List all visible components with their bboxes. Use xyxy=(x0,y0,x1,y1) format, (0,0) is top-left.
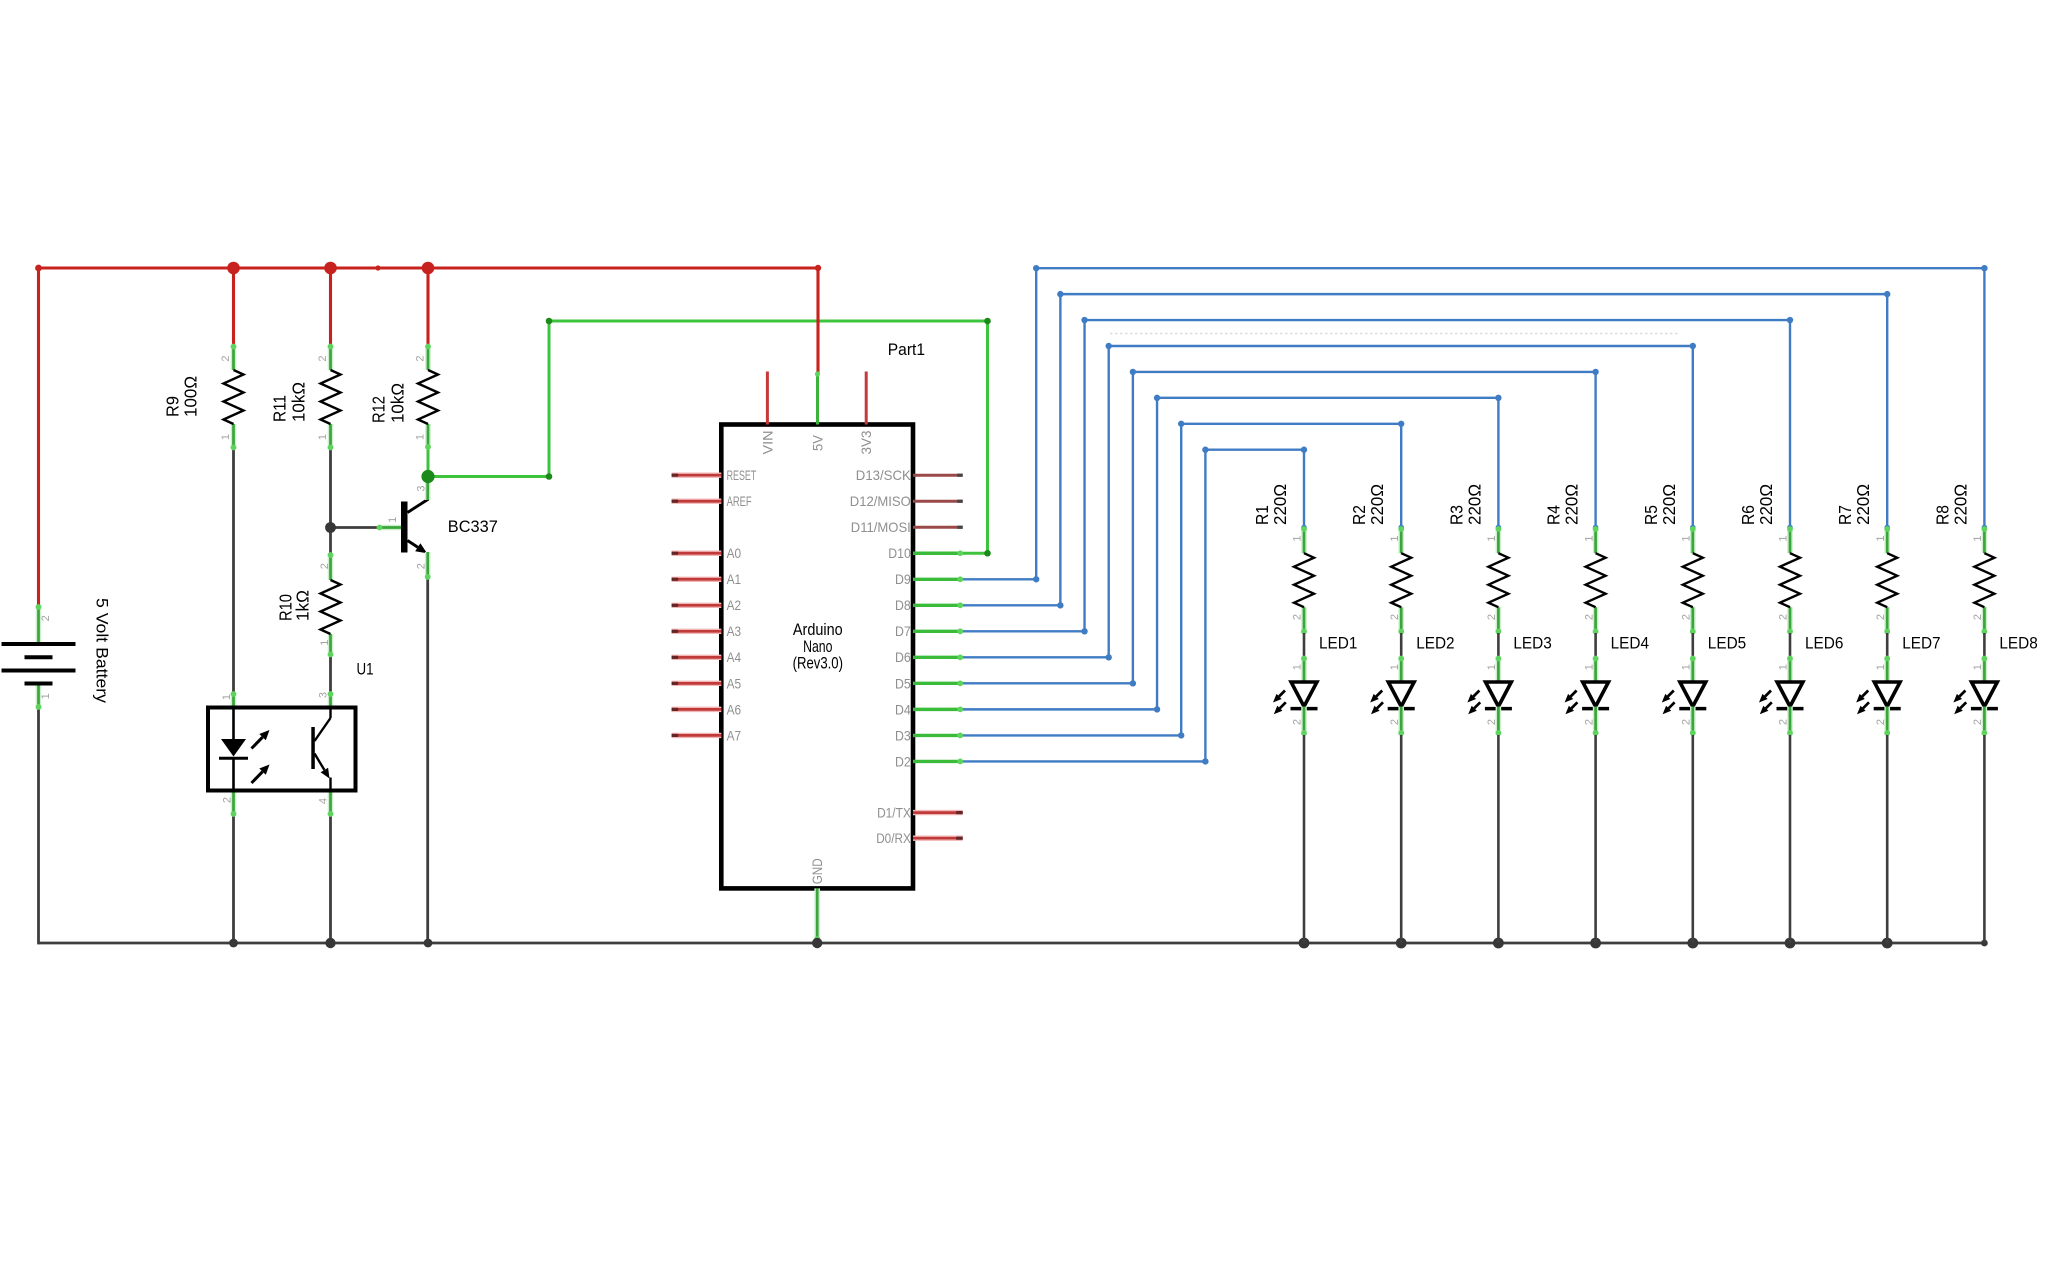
wire opto pin2 to GND bus xyxy=(232,816,235,944)
LED LED4 xyxy=(1565,634,1649,736)
svg-text:D1/TX: D1/TX xyxy=(877,805,911,821)
svg-text:220Ω: 220Ω xyxy=(1562,484,1582,525)
junction GND LED2 column xyxy=(1396,938,1407,949)
wire R9 to opto pin1 xyxy=(232,449,235,693)
svg-text:2: 2 xyxy=(1486,614,1498,620)
svg-text:1: 1 xyxy=(415,434,427,440)
svg-text:1: 1 xyxy=(1875,535,1887,541)
svg-text:1: 1 xyxy=(1292,664,1304,670)
wire LED6 to GND bus xyxy=(1789,735,1792,943)
wire R8 to LED8 xyxy=(1983,633,1986,658)
svg-text:Arduino: Arduino xyxy=(793,621,843,639)
LED LED2 xyxy=(1370,634,1454,736)
svg-text:D13/SCK: D13/SCK xyxy=(856,467,912,483)
junction GND LED5 column xyxy=(1687,938,1698,949)
wire rail to R12 xyxy=(426,268,429,345)
junction GND LED7 column xyxy=(1882,938,1893,949)
junction GND LED4 column xyxy=(1590,938,1601,949)
wire rail to R11 xyxy=(329,268,332,345)
svg-text:2: 2 xyxy=(1389,614,1401,620)
svg-text:1: 1 xyxy=(1778,535,1790,541)
svg-text:2: 2 xyxy=(319,563,331,569)
svg-text:R8: R8 xyxy=(1932,505,1952,525)
svg-text:1: 1 xyxy=(1486,664,1498,670)
wire D4 to R3 xyxy=(962,395,1502,713)
svg-text:D5: D5 xyxy=(895,675,911,691)
svg-text:R5: R5 xyxy=(1641,505,1661,525)
svg-text:R7: R7 xyxy=(1835,505,1855,525)
junction rail R9 xyxy=(227,262,240,275)
svg-text:D0/RX: D0/RX xyxy=(876,830,911,846)
wire battery negative to GND bus xyxy=(37,710,40,945)
wire base junction to BC337 base xyxy=(331,526,379,529)
wire R2 to LED2 xyxy=(1400,633,1403,658)
svg-text:2: 2 xyxy=(40,615,52,621)
LED LED5 xyxy=(1662,634,1746,736)
wire rail to Arduino 5V pin xyxy=(816,268,819,374)
svg-text:1: 1 xyxy=(220,434,232,440)
wire LED1 to GND bus xyxy=(1303,735,1306,943)
svg-text:LED3: LED3 xyxy=(1513,634,1551,653)
wire LED4 to GND bus xyxy=(1594,735,1597,943)
svg-text:D4: D4 xyxy=(895,701,911,717)
svg-text:1: 1 xyxy=(1875,664,1887,670)
svg-text:AREF: AREF xyxy=(727,493,752,509)
svg-text:2: 2 xyxy=(1292,614,1304,620)
svg-text:10kΩ: 10kΩ xyxy=(388,383,408,423)
svg-text:(Rev3.0): (Rev3.0) xyxy=(793,654,843,672)
svg-text:D7: D7 xyxy=(895,623,911,639)
wire R6 to LED6 xyxy=(1789,633,1792,658)
svg-text:2: 2 xyxy=(317,355,329,361)
wire R5 to LED5 xyxy=(1692,633,1695,658)
svg-text:100Ω: 100Ω xyxy=(181,376,201,417)
svg-text:2: 2 xyxy=(1583,614,1595,620)
wire LED5 to GND bus xyxy=(1692,735,1695,943)
svg-text:220Ω: 220Ω xyxy=(1756,484,1776,525)
svg-text:1: 1 xyxy=(1486,535,1498,541)
svg-text:3: 3 xyxy=(318,692,330,698)
wire opto pin4 to GND bus xyxy=(329,816,332,944)
junction rail R11 xyxy=(324,262,337,275)
svg-text:A7: A7 xyxy=(727,727,742,743)
wire D3 to R2 xyxy=(962,421,1404,739)
wire D8 to R7 xyxy=(962,291,1890,609)
svg-text:U1: U1 xyxy=(357,660,374,679)
svg-text:LED2: LED2 xyxy=(1416,634,1454,653)
svg-text:LED8: LED8 xyxy=(1999,634,2037,653)
svg-text:2: 2 xyxy=(1875,719,1887,725)
wire R11 to base junction xyxy=(329,449,332,528)
wire LED3 to GND bus xyxy=(1497,735,1500,943)
svg-text:1: 1 xyxy=(1681,535,1693,541)
svg-text:2: 2 xyxy=(1875,614,1887,620)
svg-text:RESET: RESET xyxy=(727,467,757,483)
wire LED2 to GND bus xyxy=(1400,735,1403,943)
svg-text:A6: A6 xyxy=(727,701,742,717)
junction GND R11 column xyxy=(325,938,335,948)
wire D9 to R8 xyxy=(962,265,1988,582)
svg-text:1: 1 xyxy=(40,693,52,699)
svg-text:1: 1 xyxy=(317,434,329,440)
svg-text:D9: D9 xyxy=(895,571,911,587)
svg-text:1: 1 xyxy=(1583,664,1595,670)
svg-text:A2: A2 xyxy=(727,597,742,613)
svg-text:1: 1 xyxy=(1972,535,1984,541)
resistor R8 220Ω xyxy=(1932,484,1994,634)
LED LED1 xyxy=(1273,634,1357,736)
svg-text:D12/MISO: D12/MISO xyxy=(850,493,911,509)
wire D6 to R5 xyxy=(962,343,1696,661)
resistor R4 220Ω xyxy=(1544,484,1606,634)
wire GND bus xyxy=(39,942,1985,945)
svg-text:LED4: LED4 xyxy=(1611,634,1649,653)
svg-text:R12: R12 xyxy=(368,396,388,423)
resistor R11 10kΩ xyxy=(270,344,341,451)
svg-text:3V3: 3V3 xyxy=(858,430,874,454)
svg-text:1: 1 xyxy=(1292,535,1304,541)
svg-text:10kΩ: 10kΩ xyxy=(289,382,309,422)
svg-text:A1: A1 xyxy=(727,571,742,587)
svg-text:1: 1 xyxy=(221,694,233,700)
svg-text:D10: D10 xyxy=(888,545,911,561)
junction base node xyxy=(325,522,336,533)
wire LED8 to GND bus xyxy=(1983,735,1986,943)
junction GND LED8 column xyxy=(1981,940,1988,947)
junction collector node xyxy=(421,470,434,483)
resistor R2 220Ω xyxy=(1349,484,1411,634)
svg-text:1: 1 xyxy=(1389,535,1401,541)
svg-text:2: 2 xyxy=(220,355,232,361)
svg-text:5 Volt Battery: 5 Volt Battery xyxy=(93,598,112,704)
wire D7 to R6 xyxy=(962,317,1793,635)
svg-text:R1: R1 xyxy=(1252,505,1272,525)
wire rail to R9 xyxy=(232,268,235,345)
svg-text:2: 2 xyxy=(1778,719,1790,725)
wire +5V rail xyxy=(35,265,821,272)
svg-text:220Ω: 220Ω xyxy=(1659,484,1679,525)
resistor R9 100Ω xyxy=(163,344,244,451)
resistor R7 220Ω xyxy=(1835,484,1897,634)
svg-text:R2: R2 xyxy=(1349,505,1369,525)
svg-text:2: 2 xyxy=(1681,719,1693,725)
svg-text:2: 2 xyxy=(1292,719,1304,725)
svg-text:A3: A3 xyxy=(727,623,742,639)
svg-text:Nano: Nano xyxy=(803,638,832,656)
transistor Q1 BC337 xyxy=(377,477,498,580)
svg-text:R4: R4 xyxy=(1544,505,1564,525)
svg-text:BC337: BC337 xyxy=(448,517,498,536)
resistor R10 1kΩ xyxy=(275,552,340,657)
wire R10 to opto pin3 xyxy=(329,656,332,693)
wire BC337 emitter to GND bus xyxy=(426,579,429,944)
wire LED7 to GND bus xyxy=(1886,735,1889,943)
junction GND LED1 column xyxy=(1299,938,1310,949)
svg-text:R3: R3 xyxy=(1446,505,1466,525)
svg-text:220Ω: 220Ω xyxy=(1367,484,1387,525)
svg-text:LED1: LED1 xyxy=(1319,634,1357,653)
wire R4 to LED4 xyxy=(1594,633,1597,658)
junction GND LED6 column xyxy=(1785,938,1796,949)
svg-text:LED6: LED6 xyxy=(1805,634,1843,653)
svg-text:220Ω: 220Ω xyxy=(1464,484,1484,525)
LED LED3 xyxy=(1467,634,1551,736)
junction GND BC337 emitter xyxy=(424,939,433,948)
wire R7 to LED7 xyxy=(1886,633,1889,658)
svg-text:2: 2 xyxy=(1972,614,1984,620)
svg-text:A4: A4 xyxy=(727,649,742,665)
LED LED7 xyxy=(1856,634,1940,736)
svg-text:1: 1 xyxy=(1583,535,1595,541)
battery BT1 5 Volt xyxy=(2,598,112,710)
resistor R3 220Ω xyxy=(1446,484,1508,634)
resistor R5 220Ω xyxy=(1641,484,1703,634)
svg-text:1: 1 xyxy=(1681,664,1693,670)
svg-text:LED7: LED7 xyxy=(1902,634,1940,653)
IC Part1 Arduino Nano xyxy=(672,340,964,943)
svg-text:5V: 5V xyxy=(809,434,825,451)
wire R12 to collector node xyxy=(427,449,430,477)
junction GND Arduino xyxy=(812,938,822,948)
svg-text:2: 2 xyxy=(415,563,427,569)
svg-text:220Ω: 220Ω xyxy=(1950,484,1970,525)
svg-text:2: 2 xyxy=(1583,719,1595,725)
svg-text:2: 2 xyxy=(1681,614,1693,620)
wire base junction to R10 xyxy=(329,528,332,554)
svg-text:D11/MOSI: D11/MOSI xyxy=(851,519,911,535)
junction rail R12 xyxy=(422,262,435,275)
svg-text:2: 2 xyxy=(1389,719,1401,725)
svg-text:1: 1 xyxy=(387,517,399,523)
svg-text:A5: A5 xyxy=(727,675,742,691)
svg-text:1: 1 xyxy=(1389,664,1401,670)
resistor R1 220Ω xyxy=(1252,484,1314,634)
optocoupler U1 xyxy=(208,660,374,817)
svg-text:2: 2 xyxy=(1778,614,1790,620)
svg-text:2: 2 xyxy=(1972,719,1984,725)
junction GND R9 column xyxy=(229,939,238,948)
svg-text:1kΩ: 1kΩ xyxy=(293,590,313,621)
svg-text:R6: R6 xyxy=(1738,505,1758,525)
svg-text:2: 2 xyxy=(221,797,233,803)
svg-text:3: 3 xyxy=(416,486,428,492)
svg-text:220Ω: 220Ω xyxy=(1270,484,1290,525)
svg-text:LED5: LED5 xyxy=(1708,634,1746,653)
svg-text:A0: A0 xyxy=(727,545,742,561)
svg-text:D6: D6 xyxy=(895,649,911,665)
svg-text:VIN: VIN xyxy=(759,431,775,455)
wire D2 to R1 xyxy=(962,447,1307,765)
wire battery positive to rail xyxy=(37,268,40,605)
wire D5 to R4 xyxy=(962,369,1599,687)
wire R3 to LED3 xyxy=(1497,633,1500,658)
svg-text:220Ω: 220Ω xyxy=(1853,484,1873,525)
svg-text:1: 1 xyxy=(1778,664,1790,670)
svg-text:D8: D8 xyxy=(895,597,911,613)
LED LED6 xyxy=(1759,634,1843,736)
svg-text:D2: D2 xyxy=(895,753,911,769)
svg-text:R9: R9 xyxy=(163,396,183,417)
svg-text:2: 2 xyxy=(415,355,427,361)
svg-text:R11: R11 xyxy=(270,395,290,422)
svg-text:GND: GND xyxy=(809,858,825,884)
svg-text:1: 1 xyxy=(319,640,331,646)
svg-text:D3: D3 xyxy=(895,727,911,743)
svg-text:1: 1 xyxy=(1972,664,1984,670)
svg-text:Part1: Part1 xyxy=(888,340,925,359)
junction GND LED3 column xyxy=(1493,938,1504,949)
svg-text:4: 4 xyxy=(318,798,330,804)
LED LED8 xyxy=(1953,634,2037,736)
resistor R6 220Ω xyxy=(1738,484,1800,634)
svg-text:2: 2 xyxy=(1486,719,1498,725)
wire R1 to LED1 xyxy=(1303,633,1306,658)
wire collector node to Arduino D10 xyxy=(428,318,991,557)
resistor R12 10kΩ xyxy=(368,344,438,450)
